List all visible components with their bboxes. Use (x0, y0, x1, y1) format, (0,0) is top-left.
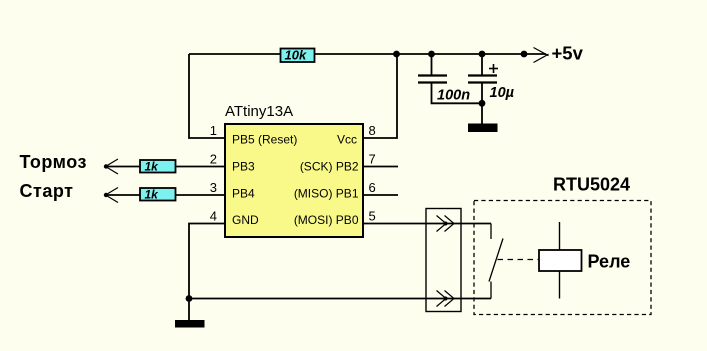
svg-text:6: 6 (369, 180, 376, 195)
svg-text:(MOSI) PB0: (MOSI) PB0 (294, 213, 359, 227)
svg-text:8: 8 (369, 123, 376, 138)
svg-text:PB4: PB4 (232, 186, 255, 200)
svg-text:7: 7 (369, 152, 376, 167)
svg-text:10µ: 10µ (490, 85, 515, 101)
svg-text:100n: 100n (437, 88, 470, 104)
svg-text:PB5 (Reset): PB5 (Reset) (232, 132, 297, 146)
svg-text:1k: 1k (145, 160, 160, 174)
svg-text:Реле: Реле (588, 252, 631, 272)
svg-text:(MISO) PB1: (MISO) PB1 (294, 186, 359, 200)
svg-text:5: 5 (369, 209, 376, 224)
svg-text:2: 2 (210, 152, 217, 167)
svg-text:GND: GND (232, 213, 259, 227)
svg-text:1: 1 (210, 123, 217, 138)
svg-text:4: 4 (210, 209, 217, 224)
svg-text:RTU5024: RTU5024 (553, 175, 630, 195)
svg-text:(SCK) PB2: (SCK) PB2 (300, 160, 359, 174)
svg-text:3: 3 (210, 180, 217, 195)
svg-text:Старт: Старт (20, 181, 74, 201)
svg-text:Vcc: Vcc (337, 132, 357, 146)
svg-text:ATtiny13A: ATtiny13A (225, 103, 293, 120)
svg-text:10k: 10k (285, 48, 307, 63)
svg-text:1k: 1k (145, 188, 160, 202)
svg-text:+5v: +5v (552, 43, 584, 64)
svg-text:Тормоз: Тормоз (20, 152, 87, 172)
svg-text:PB3: PB3 (232, 160, 255, 174)
